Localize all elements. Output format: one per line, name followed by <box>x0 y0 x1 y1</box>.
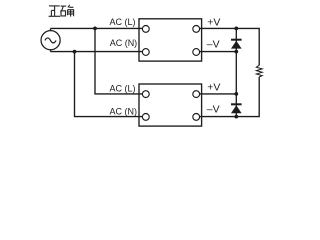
svg-text:AC (N): AC (N) <box>110 106 138 116</box>
svg-text:–V: –V <box>207 38 220 50</box>
svg-text:–V: –V <box>207 103 220 115</box>
svg-text:AC (L): AC (L) <box>109 84 135 94</box>
svg-text:AC (N): AC (N) <box>110 38 138 48</box>
svg-text:AC (L): AC (L) <box>109 17 135 27</box>
svg-text:+V: +V <box>207 16 220 28</box>
svg-text:+V: +V <box>207 81 220 93</box>
